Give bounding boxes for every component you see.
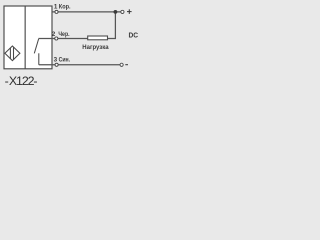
diamond inner bar 2 — [13, 47, 15, 60]
svg-text:1: 1 — [54, 4, 58, 11]
svg-text:Кор.: Кор. — [59, 4, 71, 11]
sensor box outline — [4, 6, 52, 69]
svg-text:X122-: X122- — [9, 74, 38, 88]
inductive sensor diamond symbol — [5, 46, 20, 61]
wire pin1 (Кор.) to + terminal — [52, 11, 121, 13]
pin 3 connector circle — [55, 63, 58, 66]
junction dot on + rail — [114, 10, 118, 14]
load rectangle (Нагрузка) — [88, 36, 108, 40]
svg-text:Син.: Син. — [59, 57, 71, 64]
svg-text:3: 3 — [54, 57, 58, 64]
switch blade — [34, 39, 38, 53]
switch contact symbol — [34, 39, 39, 65]
svg-text:2: 2 — [52, 31, 56, 38]
pin 1 connector circle — [55, 10, 58, 13]
+ terminal circle — [121, 10, 124, 13]
switch bottom lead — [38, 53, 40, 65]
svg-text:DC: DC — [129, 31, 139, 40]
pin 2 connector circle — [55, 37, 58, 40]
wire pin3 (Син.) to - terminal — [39, 64, 120, 66]
svg-text:Нагрузка: Нагрузка — [82, 44, 109, 51]
minus sign — [125, 64, 128, 66]
diamond inner bar 1 — [9, 48, 11, 59]
background — [0, 0, 150, 89]
svg-text:Чер.: Чер. — [58, 31, 69, 38]
plus sign — [127, 9, 132, 14]
divider line inside sensor box — [24, 6, 26, 69]
wire load right lead up to + rail — [108, 12, 116, 39]
- terminal circle — [120, 63, 123, 66]
wire pin2 (Чер.) from switch to load — [38, 38, 87, 40]
